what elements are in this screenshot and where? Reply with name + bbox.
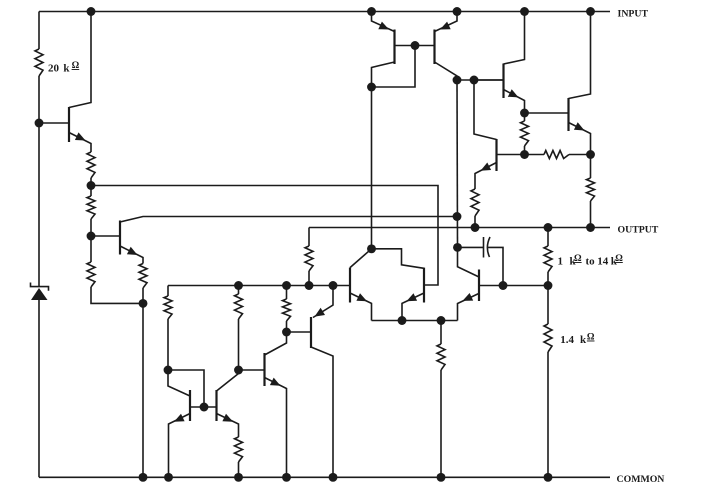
node junction R2/R3 tap (87, 181, 96, 190)
resistor R2 (87, 152, 95, 178)
resistor R9 (305, 246, 313, 271)
emitter arrow Q13 pnp (315, 308, 326, 317)
wire capacitor right lead (488, 247, 503, 285)
wire Q4 collector lead (504, 12, 525, 65)
wire Q6 emitter lead (435, 12, 458, 32)
wire Q2 collector lead to mid rail (120, 217, 457, 223)
resistor R6 (164, 296, 172, 319)
node junction common rail R11 (437, 473, 446, 482)
transistor Q4 bipolar NPN (502, 64, 504, 99)
node junction R13 bottom (520, 150, 529, 159)
node junction divider tap (544, 281, 553, 290)
node junction output rail R12 (471, 223, 480, 232)
node junction Q12 collector / Q13 base (282, 328, 291, 337)
wire Q5 collector lead (372, 62, 395, 87)
node junction mirror bases (200, 403, 209, 412)
svg-text:COMMON: COMMON (617, 474, 665, 485)
node junction output rail divider (544, 223, 553, 232)
node junction bias rail R8 (282, 281, 291, 290)
wire Q10 collector lead (168, 370, 190, 396)
node junction Qd base / cap (499, 281, 508, 290)
wire bias rail feed elbow (167, 286, 169, 297)
wire Q13 base lead (287, 331, 312, 333)
wire R9 to output rail (308, 228, 310, 247)
wire Q4 emitter lead (504, 90, 525, 114)
node junction emitter bus Qb (398, 316, 407, 325)
zener diode D1 (31, 288, 48, 300)
wire R15 stubs (590, 155, 592, 179)
transistor Qa bipolar NPN (349, 268, 351, 303)
transistor Q7 bipolar NPN (567, 98, 569, 131)
wire Q2 emitter lead (120, 246, 143, 264)
wire Qd collector lead (458, 247, 480, 277)
transistor Q13 bipolar PNP (310, 317, 312, 348)
node junction Q7 emitter (586, 150, 595, 159)
wire Q7 collector lead (569, 12, 591, 99)
resistor R10 Q11 emitter (235, 437, 243, 462)
node A junction (139, 299, 148, 308)
transistor Q6 bipolar PNP (433, 30, 435, 65)
wire R17 stubs (547, 286, 549, 325)
wire left bus middle segment (38, 76, 40, 287)
capacitor C1 plate (483, 237, 485, 258)
wire node A down to common (142, 303, 144, 477)
node junction left bus / Q1 base (35, 119, 44, 128)
resistor R13 (521, 121, 529, 146)
resistor R3 (87, 196, 95, 219)
node junction Q10 collector (164, 366, 173, 375)
node junction mirror bases top (411, 41, 420, 50)
node junction common rail Q10 (164, 473, 173, 482)
node junction Q11 collector / Q12 base (234, 366, 243, 375)
resistor R11 (437, 344, 445, 370)
wire feedback rail upper (91, 186, 438, 286)
emitter arrow Q2 (127, 247, 138, 255)
node junction top rail Q4 collector (520, 7, 529, 16)
wire Q13 emitter lead (313, 286, 333, 318)
wire Q11 emitter lead (217, 414, 239, 438)
resistor R12 Q3 emitter (471, 189, 479, 216)
wire R4 to node A (91, 287, 143, 303)
wire R8 stubs (286, 286, 288, 300)
transistor Q2 bipolar NPN (119, 221, 121, 255)
node junction bias rail R7 (234, 281, 243, 290)
wire y80 base feed (457, 79, 504, 81)
wire left bus lower segment (38, 300, 40, 477)
wire R3-R4 link (90, 219, 92, 262)
emitter arrow Q1 (75, 132, 86, 140)
node junction top rail Q7 collector (586, 7, 595, 16)
wire Q1 collector lead (69, 12, 91, 108)
transistor Q1 bipolar NPN (68, 107, 70, 142)
wire Q2 base lead (91, 235, 120, 237)
emitter arrow Q12 (270, 378, 281, 386)
node junction bias rail Q13 emitter (329, 281, 338, 290)
resistor R8 (283, 299, 291, 321)
wire base tie down to collector (372, 46, 416, 88)
wire Qb emitter lead (402, 293, 424, 321)
capacitor C1 curved plate (487, 237, 490, 257)
wire R9 lower stub (308, 271, 310, 286)
resistor R17 1.4k (544, 324, 552, 352)
wire R5 to node A (142, 288, 144, 303)
wire mirror output drop x372 (371, 87, 373, 249)
node junction output rail R15 (586, 223, 595, 232)
wire Q5-Q6 base link (395, 45, 435, 47)
resistor R5 Q2 emitter (139, 264, 147, 289)
wire capacitor left lead (458, 246, 484, 248)
wire Q1 base lead (39, 122, 69, 124)
wire top input rail (39, 11, 610, 13)
node junction Q6 collector (453, 76, 462, 85)
wire Q5 emitter lead (372, 12, 395, 32)
emitter arrow Q4 (508, 89, 519, 97)
emitter arrow Qb (407, 293, 418, 301)
wire Q12 collector lead (265, 332, 287, 355)
node junction top rail Q6 emitter (453, 7, 462, 16)
emitter arrow Q6 pnp (440, 22, 451, 30)
wire x474 drop to Q3 collector (474, 80, 497, 140)
node junction top rail / Q1 collector (87, 7, 96, 16)
emitter arrow Q7 (574, 122, 585, 130)
wire bias rail (168, 285, 350, 287)
transistor Q11 bipolar NPN (215, 390, 217, 421)
node junction y80 x474 (470, 76, 479, 85)
wire R6 to mirror collector (167, 319, 169, 370)
wire Q7 emitter lead (569, 123, 591, 155)
wire Qd emitter lead (458, 293, 480, 320)
resistor R7 (235, 294, 243, 319)
emitter arrow Qa (356, 293, 367, 301)
wire Qa emitter lead (350, 293, 372, 321)
node junction bias rail R9 (305, 281, 314, 290)
wire R10 to common (238, 462, 240, 477)
wire Q1 emitter lead (69, 133, 91, 153)
wire R13 stubs (524, 113, 526, 121)
wire R14 stubs (525, 154, 545, 156)
wire Q10 emitter lead (169, 414, 191, 478)
transistor Qb bipolar NPN (423, 268, 425, 303)
wire R7 stubs (238, 286, 240, 295)
wire R2-R3 link (90, 178, 92, 196)
node junction mid rail end (453, 212, 462, 221)
resistor R4 (87, 262, 95, 287)
wire bottom common rail (39, 476, 610, 478)
wire Q12 emitter lead (265, 378, 287, 478)
node junction x457 quad (453, 243, 462, 252)
node junction emitter bus R11 (437, 316, 446, 325)
wire left supply bus upper segment (38, 12, 40, 50)
svg-text:OUTPUT: OUTPUT (618, 225, 659, 236)
wire Q3 emitter lead (475, 163, 497, 190)
wire R16 stubs (547, 228, 549, 247)
transistor Qd bipolar NPN (478, 270, 480, 302)
node junction common rail Q12 (282, 473, 291, 482)
svg-text:INPUT: INPUT (618, 9, 649, 20)
wire Q13 collector lead (311, 347, 333, 477)
node junction common rail x143 (139, 473, 148, 482)
wire mirror base tie (168, 370, 204, 407)
node junction common rail Q13 (329, 473, 338, 482)
wire Q11 collector lead (217, 370, 239, 391)
wire Q7 base lead (525, 112, 569, 114)
resistor R16 1k-14k (544, 246, 552, 272)
node junction R3/R4 tap Q2 base (87, 232, 96, 241)
wire Q10-Q11 base link (190, 406, 217, 408)
node junction Q5 collector diode tie (367, 83, 376, 92)
emitter arrow Q10 (174, 414, 185, 422)
emitter arrow Q3 (481, 163, 492, 171)
emitter arrow Qd (463, 293, 474, 301)
transistor Q5 bipolar PNP (393, 30, 395, 65)
node junction Q4 emitter / Q7 base (520, 109, 529, 118)
resistor R15 (587, 178, 595, 201)
wire Q12 base lead (239, 369, 265, 371)
wire Qa collector lead (350, 249, 372, 268)
node junction x372 quad collectors (367, 244, 376, 253)
node junction common rail R10 (234, 473, 243, 482)
resistor R1 20 k-ohm (35, 49, 43, 76)
wire Q4 base lead segment (474, 79, 504, 81)
node junction top rail Q5 emitter (367, 7, 376, 16)
wire Q6 collector lead (435, 62, 458, 80)
transistor Q10 bipolar NPN (189, 390, 191, 421)
resistor R14 horizontal (544, 151, 569, 159)
wire x457 drop (456, 80, 459, 247)
wire Qb collector lead (372, 249, 425, 268)
wire quad emitter bus (372, 320, 458, 322)
node junction common rail divider (544, 473, 553, 482)
wire Qd base lead (479, 285, 503, 287)
wire Q3 base lead (497, 154, 525, 156)
emitter arrow Q11 (222, 414, 233, 422)
emitter arrow Q5 pnp (378, 22, 389, 30)
wire R12 to output rail (474, 216, 476, 228)
wire base node to divider (503, 285, 548, 287)
wire output rail (309, 227, 610, 229)
transistor Q12 bipolar NPN (263, 353, 265, 386)
wire R11 stubs (440, 321, 442, 345)
transistor Q3 bipolar NPN (495, 139, 497, 171)
